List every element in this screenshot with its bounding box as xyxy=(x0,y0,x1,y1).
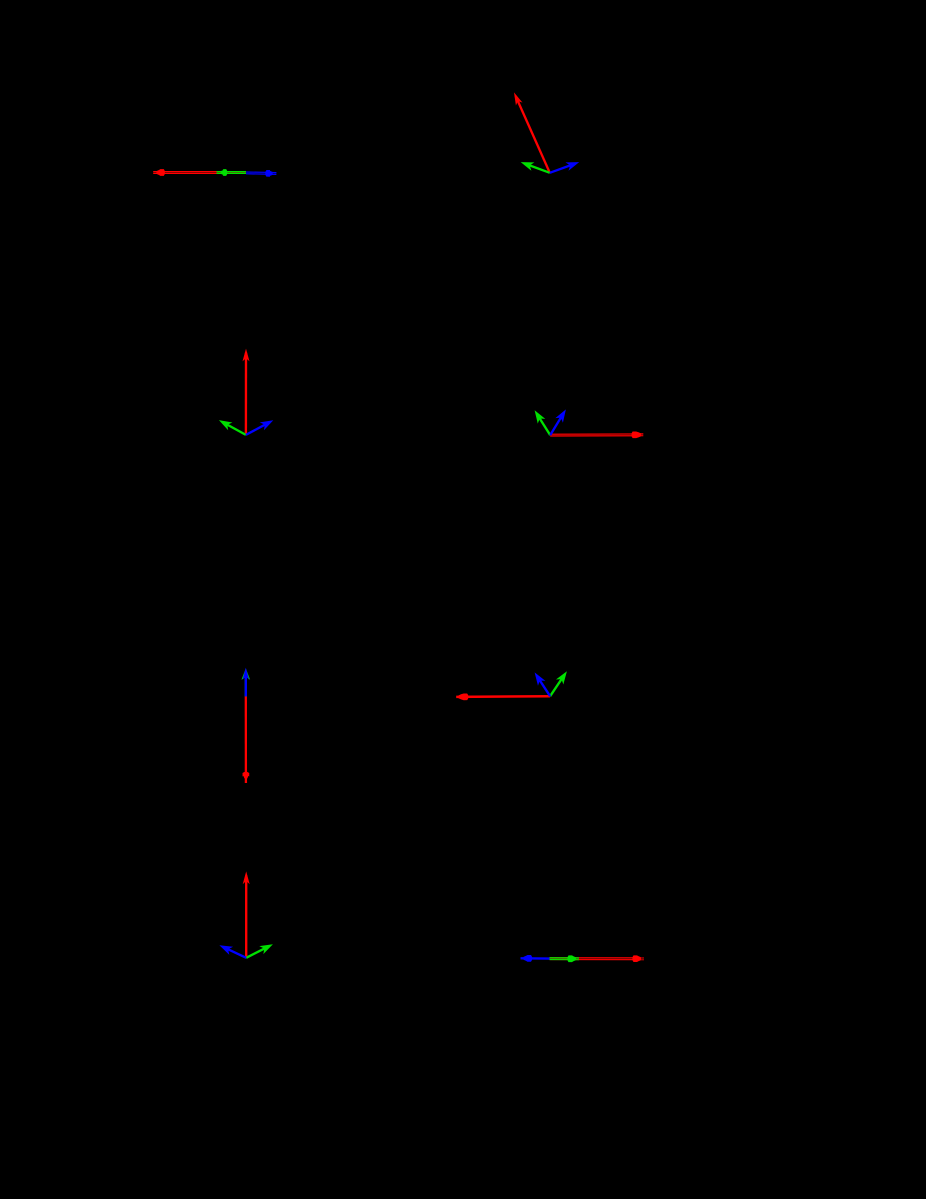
F4 x-axis arrow (red, long, pointing right) xyxy=(550,431,643,438)
F2 y-axis arrow (green, short, up-left) xyxy=(521,162,550,173)
F3 x-axis arrow (red, long, up) xyxy=(242,349,249,435)
F1 y-axis arrow (green, short, pointing left) xyxy=(217,169,247,176)
F5 y-axis arrow (green, up, hidden behind blue) xyxy=(241,668,250,696)
F3 y-axis arrow (green, short, up-left) xyxy=(219,420,246,435)
F7 z-axis arrow (blue, short, up-left) xyxy=(219,945,246,958)
F6 x-axis arrow (red, long, pointing left) xyxy=(456,693,550,700)
F7 y-axis arrow (green, short, up-right) xyxy=(246,944,273,958)
F1 x-axis arrow (red, long, pointing left) xyxy=(153,169,246,176)
F8 z-axis arrow (blue, short, pointing left) xyxy=(521,955,550,962)
F8 y-axis arrow (green, short, pointing right) xyxy=(549,955,579,962)
F5 x-axis arrow (red, long, pointing down) xyxy=(243,696,250,783)
F5 z-axis arrow (blue, short, pointing up) xyxy=(243,668,250,697)
F3 z-axis arrow (blue, short, up-right) xyxy=(246,420,273,435)
F4 y-axis arrow (green, short, up-left steep) xyxy=(535,410,551,435)
F7 x-axis arrow (red, long, up) xyxy=(243,871,250,957)
F2 x-axis arrow (red, long, up-left) xyxy=(514,92,550,172)
F1 z-axis arrow (blue, short, pointing right) xyxy=(246,170,276,177)
F2 z-axis arrow (blue, short, up-right) xyxy=(550,162,579,173)
F4 z-axis arrow (blue, short, up-right steep) xyxy=(550,409,566,435)
F8 x-axis arrow (red, long, pointing right) xyxy=(550,955,645,962)
F6 y-axis arrow (green, short, up-right) xyxy=(550,671,567,696)
F6 z-axis arrow (blue, short, up-left) xyxy=(535,672,551,696)
